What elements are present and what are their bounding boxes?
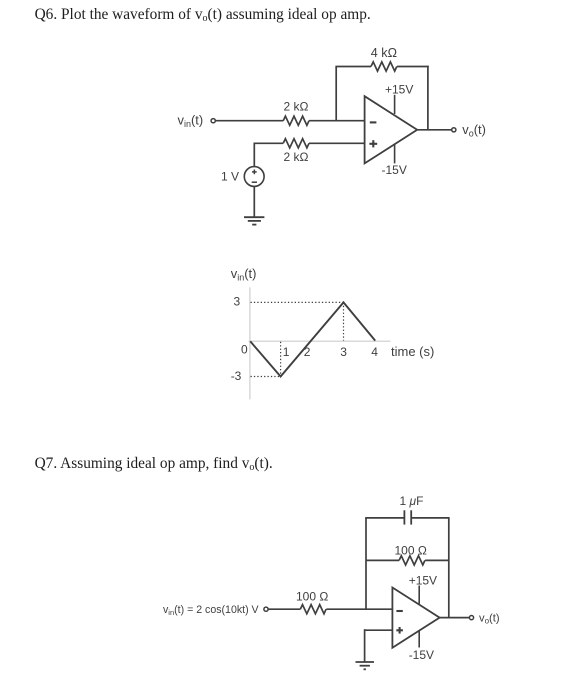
svg-text:vo(t): vo(t) [479, 612, 500, 625]
svg-text:+15V: +15V [409, 573, 437, 587]
wire op-amp output Q7 [439, 617, 469, 619]
resistor R5 100 Ohm feedback [366, 544, 449, 566]
svg-text:vo(t): vo(t) [462, 122, 486, 139]
resistor R3 2 kOhm (non-inverting input) [254, 139, 309, 164]
-15V supply Q6 [382, 145, 407, 177]
svg-text:-15V: -15V [382, 163, 407, 177]
svg-text:Q6. Plot the waveform of vo(t): Q6. Plot the waveform of vo(t) assuming … [35, 6, 371, 24]
op-amp U2 [392, 588, 439, 648]
dotted vertical t=1 [280, 342, 282, 377]
ground Q7 [356, 662, 375, 669]
voltage source V1 1V [221, 167, 264, 187]
input terminal Q7 [264, 607, 268, 611]
svg-text:100 Ω: 100 Ω [296, 590, 328, 604]
svg-text:vin(t): vin(t) [231, 266, 257, 283]
ground Q6 [244, 217, 264, 224]
wire R1 to op-amp inverting input [309, 120, 365, 122]
svg-text:+15V: +15V [385, 83, 413, 97]
capacitor C1 1uF [365, 494, 449, 525]
svg-text:time (s): time (s) [391, 344, 434, 359]
wire R3 to op-amp non-inverting input [309, 142, 365, 144]
wire feedback right vertical Q7 [448, 518, 450, 618]
wire op-amp output [417, 129, 452, 131]
svg-text:3: 3 [340, 345, 347, 359]
dotted vertical t=3 [343, 302, 345, 340]
wire non-inverting to ground Q7 [364, 629, 366, 662]
op-amp U1 [365, 96, 418, 163]
svg-text:1: 1 [283, 345, 290, 359]
svg-text:1 V: 1 V [221, 170, 239, 184]
dotted level -3 [251, 376, 281, 378]
svg-text:100 Ω: 100 Ω [395, 544, 427, 558]
svg-text:4: 4 [371, 345, 378, 359]
svg-text:-3: -3 [231, 369, 242, 383]
svg-text:4 kΩ: 4 kΩ [371, 46, 397, 60]
wire source to ground [253, 186, 255, 217]
wire feedback top right [397, 66, 429, 68]
waveform vin(t) polyline [250, 302, 375, 376]
svg-text:3: 3 [234, 295, 241, 309]
waveform graph: x axis [249, 340, 391, 342]
svg-text:Q7. Assuming ideal op amp, fin: Q7. Assuming ideal op amp, find vo(t). [35, 455, 273, 473]
wire feedback right vertical [427, 66, 429, 130]
wire input to R1 [216, 120, 283, 122]
wire feedback top left [335, 66, 371, 68]
resistor R1 2 kOhm (inverting input) [283, 100, 309, 126]
svg-text:0: 0 [241, 343, 248, 357]
wire non-inverting input Q7 [365, 629, 393, 631]
svg-text:vin(t): vin(t) [178, 113, 204, 130]
svg-text:2 kΩ: 2 kΩ [284, 100, 309, 114]
+15V supply Q6 [385, 83, 413, 115]
svg-text:1 μF: 1 μF [400, 494, 424, 508]
wire R4 to op-amp inverting input [326, 608, 392, 610]
dotted level +3 [251, 301, 344, 303]
svg-text:-15V: -15V [409, 648, 434, 662]
output terminal Q6 [452, 128, 456, 132]
output terminal Q7 [469, 616, 473, 620]
input terminal Q6 [211, 119, 215, 123]
resistor R4 100 Ohm input [296, 590, 328, 614]
svg-text:vin(t) = 2 cos(10kt) V: vin(t) = 2 cos(10kt) V [163, 604, 260, 617]
wire input to R4 [269, 608, 301, 610]
svg-text:2 kΩ: 2 kΩ [284, 150, 309, 164]
wire feedback left vertical Q7 [365, 518, 367, 609]
resistor R2 4 kOhm feedback [371, 46, 397, 71]
-15V supply Q7 [409, 631, 434, 662]
wire source vertical [253, 143, 255, 167]
wire feedback left vertical [335, 67, 337, 121]
+15V supply Q7 [409, 573, 437, 604]
waveform graph: y axis [249, 287, 251, 399]
